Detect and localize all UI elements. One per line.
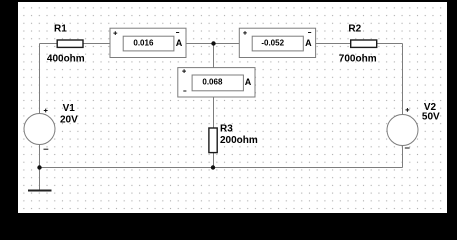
svg-text:V1: V1 bbox=[63, 103, 76, 114]
svg-text:400ohm: 400ohm bbox=[47, 53, 85, 64]
svg-text:A: A bbox=[305, 38, 312, 48]
svg-text:R3: R3 bbox=[220, 123, 233, 134]
svg-text:A: A bbox=[245, 77, 252, 87]
svg-text:-0.052: -0.052 bbox=[261, 39, 284, 48]
svg-text:700ohm: 700ohm bbox=[339, 53, 377, 64]
svg-text:0.016: 0.016 bbox=[133, 38, 154, 47]
svg-text:R2: R2 bbox=[348, 23, 361, 34]
svg-text:20V: 20V bbox=[60, 115, 78, 126]
svg-text:A: A bbox=[176, 38, 183, 48]
svg-text:50V: 50V bbox=[422, 112, 440, 123]
svg-text:R1: R1 bbox=[54, 23, 67, 34]
svg-text:0.068: 0.068 bbox=[202, 77, 223, 86]
svg-text:200ohm: 200ohm bbox=[220, 135, 258, 146]
